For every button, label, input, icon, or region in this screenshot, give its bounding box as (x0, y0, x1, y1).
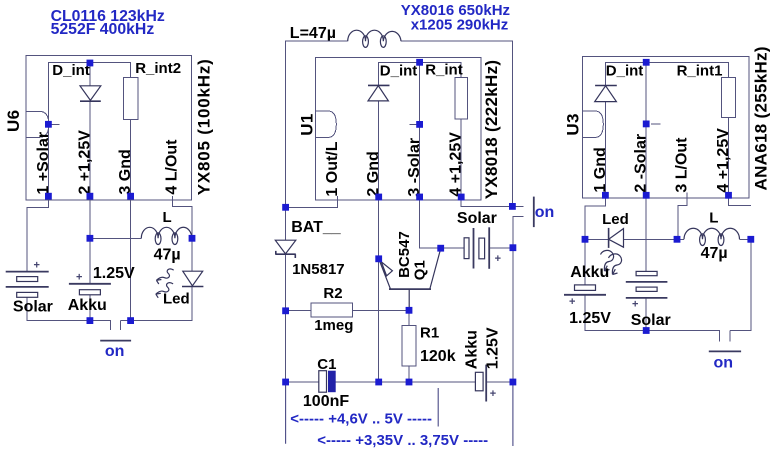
svg-text:1 +Solar: 1 +Solar (35, 132, 52, 195)
svg-text:4 +1,25V: 4 +1,25V (448, 132, 465, 197)
svg-text:2 +1,25V: 2 +1,25V (76, 130, 93, 195)
svg-text:U3: U3 (564, 113, 583, 135)
svg-text:+: + (76, 272, 82, 284)
svg-text:47µ: 47µ (154, 247, 181, 264)
svg-text:on: on (535, 204, 555, 221)
svg-text:R_int2: R_int2 (135, 60, 181, 77)
svg-text:L: L (709, 210, 718, 227)
svg-text:Akku: Akku (68, 297, 107, 314)
svg-text:+: + (569, 296, 575, 308)
svg-text:L: L (163, 209, 172, 226)
svg-text:Led: Led (602, 211, 629, 228)
svg-text:C1: C1 (317, 356, 336, 373)
svg-text:D_int: D_int (606, 63, 644, 80)
svg-text:Solar: Solar (457, 210, 497, 227)
svg-text:R_int1: R_int1 (677, 63, 723, 80)
svg-text:1N5817: 1N5817 (292, 261, 345, 278)
svg-text:1.25V: 1.25V (569, 310, 611, 327)
svg-text:<----- +4,6V .. 5V -----: <----- +4,6V .. 5V ----- (290, 410, 432, 427)
svg-text:2 Gnd: 2 Gnd (365, 151, 382, 196)
svg-text:on: on (714, 355, 734, 372)
svg-text:L=47µ: L=47µ (290, 25, 336, 42)
svg-text:100nF: 100nF (303, 393, 349, 410)
svg-text:+: + (34, 260, 40, 272)
svg-text:3 -Solar: 3 -Solar (406, 138, 423, 197)
svg-text:YX805 (100kHz): YX805 (100kHz) (195, 58, 214, 195)
svg-text:120k: 120k (420, 348, 456, 365)
svg-text:+: + (490, 388, 496, 400)
svg-text:BAT__: BAT__ (291, 219, 342, 236)
svg-text:YX8018 (222kHz): YX8018 (222kHz) (482, 60, 501, 200)
svg-text:ANA618 (255kHz): ANA618 (255kHz) (752, 46, 771, 190)
svg-text:5252F 400kHz: 5252F 400kHz (51, 21, 155, 38)
svg-text:U1: U1 (298, 113, 317, 135)
svg-text:<----- +3,35V .. 3,75V -----: <----- +3,35V .. 3,75V ----- (317, 432, 488, 449)
svg-text:3 Gnd: 3 Gnd (117, 149, 134, 194)
svg-text:x1205 290kHz: x1205 290kHz (411, 16, 509, 33)
svg-text:on: on (105, 343, 125, 360)
svg-text:R1: R1 (420, 325, 439, 342)
svg-text:47µ: 47µ (701, 245, 728, 262)
svg-text:D_int: D_int (380, 63, 418, 80)
svg-text:4 +1,25V: 4 +1,25V (715, 128, 732, 193)
svg-text:1.25V: 1.25V (93, 265, 135, 282)
svg-text:Solar: Solar (13, 299, 53, 316)
svg-text:+: + (632, 298, 638, 310)
svg-text:1 Out/L: 1 Out/L (324, 141, 341, 196)
svg-text:D_int: D_int (52, 62, 90, 79)
svg-text:Q1: Q1 (412, 260, 429, 280)
svg-text:BC547: BC547 (396, 231, 413, 278)
svg-text:1 Gnd: 1 Gnd (592, 147, 609, 192)
svg-text:R_int: R_int (425, 62, 463, 79)
svg-text:1.25V: 1.25V (484, 327, 501, 369)
svg-text:Akku: Akku (463, 330, 480, 369)
svg-text:4 L/Out: 4 L/Out (164, 139, 181, 195)
svg-text:Solar: Solar (631, 312, 671, 329)
svg-text:R2: R2 (323, 285, 342, 302)
svg-text:Led: Led (163, 291, 190, 308)
svg-text:U6: U6 (4, 110, 23, 132)
svg-text:1meg: 1meg (314, 317, 353, 334)
svg-text:+: + (495, 253, 501, 265)
svg-text:2 -Solar: 2 -Solar (633, 134, 650, 193)
svg-text:3 L/Out: 3 L/Out (673, 137, 690, 193)
svg-text:Akku: Akku (570, 264, 609, 281)
